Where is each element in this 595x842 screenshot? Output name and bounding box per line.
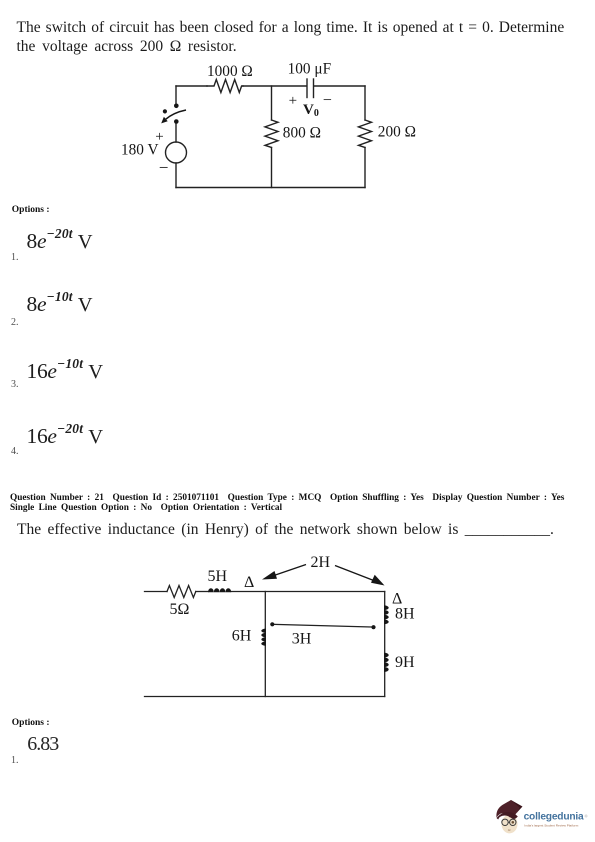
resistor R1 1000 ohm xyxy=(207,80,243,93)
inductor L1 5H xyxy=(208,588,231,592)
svg-text:Δ: Δ xyxy=(244,574,254,591)
circuit 1 schematic xyxy=(110,55,430,200)
circuit 2 schematic xyxy=(135,548,425,703)
svg-text:6H: 6H xyxy=(232,627,252,644)
label: 200 ohm xyxy=(378,123,416,140)
inductor L4 9H xyxy=(384,653,389,672)
wire: switch to source xyxy=(175,123,177,142)
resistor R2 800 ohm xyxy=(265,120,278,148)
metadata lines xyxy=(10,493,564,513)
svg-text:200 Ω: 200 Ω xyxy=(378,123,416,140)
mascot face xyxy=(496,800,522,833)
Question 2 text xyxy=(17,520,554,539)
svg-text:2H: 2H xyxy=(311,554,331,571)
svg-text:3H: 3H xyxy=(292,631,312,648)
label: 1000 ohm xyxy=(207,63,253,80)
wire: bottom xyxy=(176,187,365,189)
resistor R3 200 ohm xyxy=(359,120,372,148)
label: 5 ohm xyxy=(170,601,190,618)
wire: top left segment xyxy=(176,85,207,87)
svg-text:collegedunia: collegedunia xyxy=(524,812,584,823)
capacitor C1 100uF xyxy=(307,79,314,98)
wire: middle vertical branch xyxy=(264,592,266,697)
Options header Q2 xyxy=(12,718,50,728)
Options header Q1 xyxy=(12,205,50,215)
svg-text:800 Ω: 800 Ω xyxy=(283,125,321,142)
label: capacitor plus xyxy=(289,93,297,109)
logo text xyxy=(524,812,588,828)
wire: between R4 and L1 xyxy=(196,591,208,593)
svg-text:5H: 5H xyxy=(208,568,228,585)
wire: right vertical branch xyxy=(384,592,386,697)
label: 2H xyxy=(311,554,331,571)
Question 1 text xyxy=(17,18,565,56)
wire: right branch bottom xyxy=(364,148,366,188)
wire: left top (to switch) xyxy=(175,86,177,104)
svg-text:−: − xyxy=(323,92,332,109)
node dot: left coupling dot xyxy=(270,622,274,626)
wire: middle branch top xyxy=(271,86,273,120)
collegedunia logo xyxy=(492,796,592,842)
wire: top middle segment xyxy=(243,85,306,87)
switch S1 (opening) xyxy=(161,104,186,124)
wire: top middle to right xyxy=(231,591,385,593)
svg-text:®: ® xyxy=(585,814,588,819)
option 2 math xyxy=(27,294,93,316)
label: 8H xyxy=(395,606,415,623)
node dot: right coupling dot xyxy=(371,625,375,629)
svg-text:8H: 8H xyxy=(395,606,415,623)
svg-text:9H: 9H xyxy=(395,654,415,671)
label: 6H xyxy=(232,627,252,644)
label: capacitor minus xyxy=(323,92,332,109)
option 1 math xyxy=(27,231,93,253)
mutual inductance arrow right (2H) xyxy=(335,566,385,586)
label: source plus xyxy=(155,129,163,145)
wire: bottom xyxy=(145,696,385,698)
svg-text:5Ω: 5Ω xyxy=(170,601,190,618)
svg-text:V0: V0 xyxy=(303,102,319,119)
label: 800 ohm xyxy=(283,125,321,142)
svg-text:India's largest Student Review: India's largest Student Review Platform xyxy=(524,823,578,827)
svg-text:180 V: 180 V xyxy=(121,142,159,159)
wire: 3H coupling link xyxy=(275,624,372,627)
label: delta right xyxy=(392,590,402,607)
option 4 math xyxy=(27,426,104,448)
svg-text:100 μF: 100 μF xyxy=(288,61,331,78)
label: 100 uF xyxy=(288,61,331,78)
label: V0 node xyxy=(303,102,319,119)
label: delta left xyxy=(244,574,254,591)
voltage source V1 180V xyxy=(166,142,187,163)
wire: middle branch bottom xyxy=(271,148,273,188)
label: 3H xyxy=(292,631,312,648)
wire: right branch top xyxy=(364,86,366,120)
mutual inductance arrow left (2H) xyxy=(262,565,306,580)
label: 9H xyxy=(395,654,415,671)
svg-text:+: + xyxy=(155,129,163,145)
inductor L2 6H xyxy=(261,629,266,646)
label: 180 V xyxy=(121,142,159,159)
label: source minus xyxy=(159,158,169,177)
wire: top right segment xyxy=(315,85,366,87)
svg-text:+: + xyxy=(289,93,297,109)
inductor L3 8H xyxy=(384,605,389,624)
wire: top left lead xyxy=(145,591,168,593)
label: 5H xyxy=(208,568,228,585)
option 3 math xyxy=(27,361,104,383)
svg-text:1000 Ω: 1000 Ω xyxy=(207,63,253,80)
wire: source to bottom xyxy=(175,163,177,188)
resistor R4 5 ohm xyxy=(167,586,196,598)
option 1 value xyxy=(27,733,58,756)
svg-text:−: − xyxy=(159,158,169,177)
